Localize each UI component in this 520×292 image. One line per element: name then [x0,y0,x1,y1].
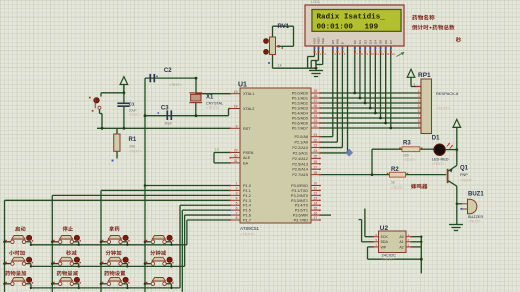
svg-text:P0.5/AD5: P0.5/AD5 [292,117,308,121]
svg-text:10uF: 10uF [129,108,137,112]
svg-text:VEE: VEE [321,38,325,44]
svg-text:23: 23 [314,144,318,148]
svg-text:<TEXT>: <TEXT> [403,158,416,162]
svg-text:2: 2 [236,187,238,191]
svg-text:P1.2: P1.2 [243,194,251,198]
svg-text:24C02C: 24C02C [382,252,397,257]
svg-text:SCK: SCK [381,235,389,239]
svg-text:9: 9 [236,125,238,129]
svg-text:D7: D7 [389,40,393,44]
svg-text:LED-RED: LED-RED [432,158,449,162]
svg-text:<TEXT>: <TEXT> [206,106,219,110]
svg-text:<TEXT>: <TEXT> [169,83,182,87]
svg-text:RP1: RP1 [418,72,431,79]
svg-text:P1.7: P1.7 [243,219,251,223]
svg-text:<TEXT>: <TEXT> [432,162,445,166]
svg-text:R1: R1 [129,137,137,143]
svg-text:P1.0: P1.0 [243,184,251,188]
svg-text:ALE: ALE [243,156,251,160]
svg-text:A2: A2 [399,245,403,249]
svg-text:P3.5/T1: P3.5/T1 [295,209,308,213]
svg-text:XTAL1: XTAL1 [243,92,254,96]
svg-text:8: 8 [236,216,238,220]
svg-text:C1: C1 [129,102,135,107]
svg-text:SDA: SDA [381,240,389,244]
svg-text:<TEXT>: <TEXT> [391,186,404,190]
svg-text:Radix Isatidis_: Radix Isatidis_ [317,13,386,21]
svg-text:RST: RST [243,127,251,131]
svg-text:30: 30 [234,154,238,158]
svg-text:100: 100 [403,154,409,158]
svg-text:PSEN: PSEN [243,151,254,155]
svg-text:P0.3/AD3: P0.3/AD3 [292,107,308,111]
svg-text:<TEXT>: <TEXT> [468,220,481,224]
svg-text:19: 19 [234,90,238,94]
svg-text:XTAL2: XTAL2 [243,107,254,111]
svg-text:1k: 1k [278,64,282,68]
svg-text:P2.6/A14: P2.6/A14 [292,168,308,172]
svg-text:D2: D2 [363,40,367,44]
svg-text:27: 27 [314,165,318,169]
svg-text:18: 18 [234,105,238,109]
svg-text:13: 13 [386,52,390,56]
svg-text:U1: U1 [238,82,247,89]
svg-text:P0.4/AD4: P0.4/AD4 [292,112,308,116]
svg-text:10: 10 [371,52,375,56]
svg-text:P3.2/INT0: P3.2/INT0 [291,194,308,198]
svg-text:15: 15 [314,206,318,210]
svg-text:P2.5/A13: P2.5/A13 [292,162,308,166]
svg-text:P2.4/A12: P2.4/A12 [292,157,308,161]
svg-text:14: 14 [391,52,395,56]
svg-text:P0.6/AD6: P0.6/AD6 [292,122,308,126]
svg-text:P3.3/INT1: P3.3/INT1 [291,199,308,203]
svg-text:199: 199 [365,24,379,32]
svg-text:1.0: 1.0 [215,148,220,152]
svg-text:32: 32 [314,124,318,128]
svg-text:P0.2/AD2: P0.2/AD2 [292,102,308,106]
svg-text:R3: R3 [403,140,411,146]
svg-text:RV1: RV1 [278,24,290,30]
svg-text:E: E [341,42,345,44]
svg-text:38: 38 [314,94,318,98]
svg-text:P3.7/RD: P3.7/RD [294,219,309,223]
svg-text:EA: EA [243,161,249,165]
svg-text:29: 29 [234,149,238,153]
svg-text:LCD1: LCD1 [311,0,320,4]
svg-text:<TEXT>: <TEXT> [129,149,142,153]
svg-text:X1: X1 [206,95,214,101]
svg-text:BUZ1: BUZ1 [468,192,484,198]
svg-text:12: 12 [314,192,318,196]
svg-text:P1.1: P1.1 [243,189,251,193]
svg-text:P0.0/AD0: P0.0/AD0 [292,92,308,96]
svg-text:WP: WP [381,245,387,249]
svg-text:RESPACK-8: RESPACK-8 [436,91,459,96]
svg-text:37: 37 [314,99,318,103]
svg-text:P1.4: P1.4 [243,204,251,208]
svg-text:P0.1/AD1: P0.1/AD1 [292,97,308,101]
svg-text:5: 5 [236,201,238,205]
svg-text:<TEXT>: <TEXT> [240,232,256,237]
svg-text:<TEXT>: <TEXT> [460,179,473,183]
svg-text:17: 17 [314,216,318,220]
svg-text:D4: D4 [374,40,378,44]
svg-text:D1: D1 [358,40,362,44]
svg-text:P2.1/A9: P2.1/A9 [294,141,308,145]
svg-text:<TEXT>: <TEXT> [436,107,451,111]
svg-text:P3.0/RXD: P3.0/RXD [291,184,308,188]
svg-text:14: 14 [314,201,318,205]
svg-text:6: 6 [236,206,238,210]
svg-text:P3.6/WR: P3.6/WR [293,214,308,218]
svg-text:35: 35 [314,109,318,113]
svg-text:RS: RS [331,40,335,44]
svg-text:3: 3 [236,192,238,196]
svg-text:34: 34 [314,114,318,118]
svg-text:7: 7 [236,211,238,215]
svg-text:00:01:00: 00:01:00 [317,24,354,32]
svg-text:4: 4 [236,196,238,200]
svg-text:AT89C51: AT89C51 [240,226,260,231]
svg-text:P0.7/AD7: P0.7/AD7 [292,127,308,131]
svg-text:C3: C3 [161,106,169,112]
svg-text:P1.3: P1.3 [243,199,251,203]
svg-text:1: 1 [236,182,238,186]
svg-text:21: 21 [314,133,318,137]
svg-text:P1.6: P1.6 [243,214,251,218]
svg-text:P2.2/A10: P2.2/A10 [292,146,308,150]
svg-text:P1.5: P1.5 [243,209,251,213]
svg-text:A1: A1 [399,240,403,244]
svg-text:10: 10 [314,182,318,186]
svg-text:Q1: Q1 [460,166,469,172]
svg-text:1: 1 [413,82,415,86]
svg-text:<TEXT>: <TEXT> [129,113,141,117]
svg-text:R2: R2 [391,167,399,173]
svg-text:P3.1/TXD: P3.1/TXD [292,189,309,193]
svg-text:A0: A0 [399,235,403,239]
svg-text:28: 28 [314,171,318,175]
svg-text:D1: D1 [432,136,440,142]
svg-text:36: 36 [314,104,318,108]
svg-text:D5: D5 [379,40,383,44]
svg-text:D0: D0 [353,40,357,44]
svg-text:26: 26 [314,160,318,164]
svg-text:10k: 10k [129,144,135,148]
svg-text:P3.4/T0: P3.4/T0 [295,204,308,208]
svg-text:D6: D6 [384,40,388,44]
svg-text:39: 39 [314,89,318,93]
svg-text:D3: D3 [368,40,372,44]
svg-text:P2.3/A11: P2.3/A11 [293,151,308,155]
svg-text:12: 12 [381,52,385,56]
svg-text:33: 33 [314,119,318,123]
svg-text:22: 22 [314,138,318,142]
svg-text:BUZZER: BUZZER [468,215,483,219]
svg-text:25: 25 [314,155,318,159]
svg-text:13: 13 [314,196,318,200]
svg-text:1k: 1k [391,181,395,185]
svg-text:RW: RW [336,39,340,44]
svg-text:<TEXT>: <TEXT> [382,258,395,262]
svg-text:30pF: 30pF [165,122,173,126]
svg-text:C2: C2 [164,68,172,74]
svg-text:11: 11 [376,52,379,56]
svg-text:24: 24 [314,149,318,153]
svg-text:P2.0/A8: P2.0/A8 [294,135,308,139]
svg-text:31: 31 [234,159,238,163]
svg-text:11: 11 [314,187,318,191]
svg-text:P2.7/A15: P2.7/A15 [292,173,308,177]
svg-text:16: 16 [314,211,318,215]
svg-text:PNP: PNP [460,173,468,177]
svg-text:U2: U2 [380,225,389,232]
